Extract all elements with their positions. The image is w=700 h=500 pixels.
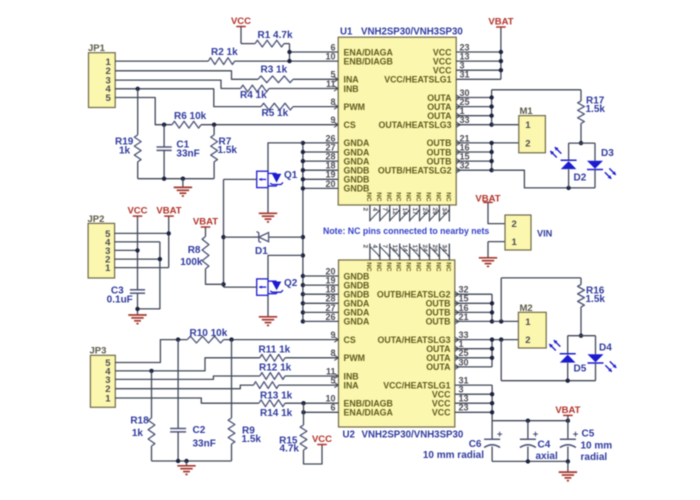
svg-text:1: 1 — [105, 263, 111, 274]
svg-text:1: 1 — [512, 237, 518, 248]
svg-text:PWM: PWM — [344, 353, 366, 363]
svg-text:M1: M1 — [520, 106, 534, 117]
svg-text:JP2: JP2 — [88, 214, 105, 225]
svg-text:NC: NC — [375, 262, 382, 272]
svg-text:D4: D4 — [599, 342, 612, 353]
svg-text:1.5k: 1.5k — [218, 145, 238, 156]
svg-text:31: 31 — [460, 70, 470, 80]
svg-text:R13 1k: R13 1k — [260, 391, 293, 402]
svg-text:VIN: VIN — [537, 228, 553, 238]
svg-text:VCC/HEATSLG1: VCC/HEATSLG1 — [384, 75, 451, 85]
svg-text:R12 1k: R12 1k — [259, 363, 292, 374]
svg-text:NC: NC — [395, 262, 402, 272]
svg-text:21: 21 — [459, 312, 469, 322]
svg-text:2: 2 — [512, 219, 517, 230]
svg-text:6: 6 — [330, 403, 335, 413]
svg-text:10 mm: 10 mm — [581, 441, 613, 452]
svg-text:10: 10 — [325, 52, 335, 62]
svg-text:NC: NC — [385, 262, 392, 272]
svg-text:10 mm radial: 10 mm radial — [423, 450, 484, 461]
svg-text:VBAT: VBAT — [156, 206, 181, 217]
svg-text:NC: NC — [444, 192, 451, 202]
svg-text:C4: C4 — [538, 440, 551, 451]
svg-text:20: 20 — [325, 179, 335, 189]
svg-text:2: 2 — [525, 335, 530, 346]
svg-text:Q1: Q1 — [284, 170, 298, 181]
svg-text:ENA/DIAGA: ENA/DIAGA — [344, 408, 394, 418]
svg-text:1.5k: 1.5k — [242, 434, 262, 445]
svg-text:VNH2SP30/VNH3SP30: VNH2SP30/VNH3SP30 — [361, 27, 463, 38]
svg-text:NC: NC — [365, 192, 372, 202]
svg-text:11: 11 — [326, 79, 336, 89]
svg-text:1k: 1k — [132, 428, 144, 439]
svg-text:R10 10k: R10 10k — [190, 328, 228, 339]
svg-text:33nF: 33nF — [193, 439, 216, 450]
svg-text:Note: NC pins connected to nea: Note: NC pins connected to nearby nets — [323, 226, 489, 236]
svg-text:VCC: VCC — [231, 16, 251, 27]
svg-text:1: 1 — [525, 120, 531, 131]
svg-text:NC: NC — [424, 192, 431, 202]
svg-text:23: 23 — [459, 403, 469, 413]
svg-text:INB: INB — [344, 84, 359, 94]
svg-text:U1: U1 — [340, 27, 353, 38]
svg-text:5: 5 — [330, 376, 335, 386]
svg-text:axial: axial — [536, 451, 558, 462]
svg-text:1.5k: 1.5k — [586, 294, 606, 305]
svg-text:9: 9 — [330, 115, 335, 125]
svg-text:D5: D5 — [574, 363, 587, 374]
svg-text:14: 14 — [401, 208, 408, 216]
svg-text:NC: NC — [365, 262, 372, 272]
svg-text:33: 33 — [460, 115, 470, 125]
svg-text:0.1uF: 0.1uF — [107, 295, 133, 306]
svg-text:VBAT: VBAT — [488, 16, 513, 27]
svg-text:1k: 1k — [119, 146, 131, 157]
svg-text:9: 9 — [330, 330, 335, 340]
svg-text:VNH2SP30/VNH3SP30: VNH2SP30/VNH3SP30 — [362, 430, 464, 441]
svg-text:1: 1 — [105, 393, 111, 404]
svg-text:2: 2 — [525, 138, 530, 149]
svg-text:VCC: VCC — [432, 408, 451, 418]
svg-text:R4 1k: R4 1k — [240, 90, 267, 101]
svg-text:4: 4 — [371, 208, 378, 212]
svg-text:D2: D2 — [574, 173, 587, 184]
svg-text:OUTA/HEATSLG3: OUTA/HEATSLG3 — [379, 120, 452, 130]
svg-text:JP1: JP1 — [88, 43, 106, 54]
svg-text:CS: CS — [344, 120, 356, 130]
svg-text:U2: U2 — [343, 430, 355, 441]
svg-text:12: 12 — [391, 208, 398, 216]
svg-text:4: 4 — [371, 245, 378, 249]
svg-text:R14 1k: R14 1k — [260, 408, 293, 419]
svg-text:5: 5 — [106, 93, 112, 104]
svg-text:VBAT: VBAT — [555, 405, 580, 416]
svg-text:R11 1k: R11 1k — [259, 345, 291, 356]
svg-text:NC: NC — [444, 262, 451, 272]
svg-text:radial: radial — [581, 452, 608, 463]
svg-text:OUTB/HEATSLG2: OUTB/HEATSLG2 — [378, 166, 452, 176]
svg-text:8: 8 — [330, 348, 335, 358]
svg-text:NC: NC — [424, 262, 431, 272]
svg-text:R18: R18 — [130, 416, 149, 427]
svg-text:VBAT: VBAT — [193, 216, 218, 227]
svg-text:ENB/DIAGB: ENB/DIAGB — [344, 56, 393, 66]
svg-text:2: 2 — [361, 245, 368, 249]
svg-text:NC: NC — [434, 192, 441, 202]
svg-text:VCC: VCC — [127, 206, 147, 217]
svg-text:NC: NC — [434, 262, 441, 272]
svg-text:M2: M2 — [520, 303, 533, 314]
svg-text:R5 1k: R5 1k — [262, 108, 289, 119]
svg-text:D3: D3 — [601, 148, 614, 159]
svg-text:D1: D1 — [255, 246, 268, 257]
svg-text:OUTB: OUTB — [426, 317, 451, 327]
svg-text:30: 30 — [459, 357, 469, 367]
svg-text:NC: NC — [405, 192, 412, 202]
svg-text:Q2: Q2 — [284, 278, 298, 289]
svg-text:R8: R8 — [188, 245, 201, 256]
svg-text:CS: CS — [344, 335, 356, 345]
svg-text:8: 8 — [330, 97, 335, 107]
svg-text:17: 17 — [411, 208, 418, 216]
svg-text:C5: C5 — [582, 429, 595, 440]
svg-text:33nF: 33nF — [176, 148, 199, 159]
svg-text:R1 4.7k: R1 4.7k — [258, 30, 293, 41]
svg-text:C6: C6 — [469, 439, 482, 450]
svg-text:7: 7 — [381, 245, 388, 249]
svg-text:INA: INA — [344, 380, 360, 390]
svg-text:NC: NC — [415, 262, 422, 272]
svg-text:PWM: PWM — [344, 102, 366, 112]
svg-text:26: 26 — [325, 312, 335, 322]
svg-text:JP3: JP3 — [90, 346, 107, 357]
svg-text:NC: NC — [405, 262, 412, 272]
svg-text:R6 10k: R6 10k — [174, 111, 207, 122]
svg-text:32: 32 — [460, 161, 470, 171]
svg-text:NC: NC — [385, 192, 392, 202]
svg-text:1: 1 — [525, 317, 531, 328]
svg-text:VCC: VCC — [312, 434, 332, 445]
svg-text:24: 24 — [421, 208, 428, 216]
svg-text:1.5k: 1.5k — [586, 104, 606, 115]
svg-text:C2: C2 — [193, 425, 206, 436]
svg-text:29: 29 — [431, 208, 438, 216]
svg-text:34: 34 — [441, 208, 448, 216]
svg-text:OUTA: OUTA — [426, 362, 451, 372]
svg-text:100k: 100k — [180, 257, 203, 268]
svg-text:NC: NC — [375, 192, 382, 202]
svg-text:7: 7 — [381, 208, 388, 212]
svg-text:NC: NC — [395, 192, 402, 202]
svg-text:R2 1k: R2 1k — [211, 47, 238, 58]
svg-text:4.7k: 4.7k — [280, 444, 300, 455]
svg-text:GNDA: GNDA — [344, 317, 371, 327]
svg-text:NC: NC — [415, 192, 422, 202]
svg-text:R3 1k: R3 1k — [261, 65, 288, 76]
svg-text:2: 2 — [361, 208, 368, 212]
